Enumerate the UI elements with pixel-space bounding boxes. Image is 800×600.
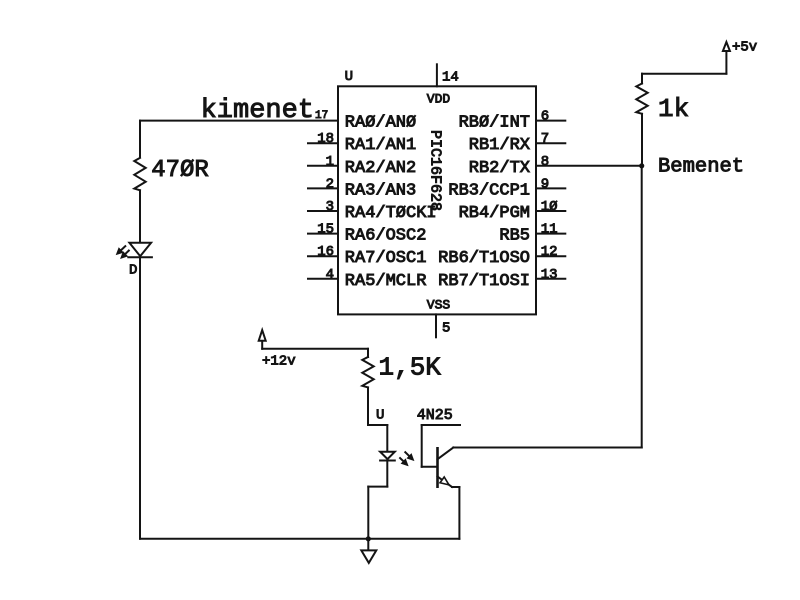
svg-text:1Ø: 1Ø bbox=[541, 199, 558, 215]
svg-text:4: 4 bbox=[326, 267, 334, 283]
svg-text:U: U bbox=[376, 408, 384, 424]
svg-text:1k: 1k bbox=[658, 94, 689, 124]
svg-text:RA4/TØCKI: RA4/TØCKI bbox=[345, 204, 437, 223]
svg-text:RA3/AN3: RA3/AN3 bbox=[345, 181, 416, 200]
svg-text:17: 17 bbox=[315, 110, 328, 122]
svg-text:RB7/T1OSI: RB7/T1OSI bbox=[438, 272, 530, 291]
svg-text:kimenet: kimenet bbox=[201, 96, 314, 126]
svg-text:16: 16 bbox=[317, 244, 334, 260]
svg-text:RA6/OSC2: RA6/OSC2 bbox=[345, 227, 427, 246]
svg-text:4N25: 4N25 bbox=[417, 407, 453, 424]
svg-text:VDD: VDD bbox=[427, 91, 451, 106]
svg-text:9: 9 bbox=[541, 176, 549, 192]
svg-text:6: 6 bbox=[541, 109, 549, 125]
svg-text:3: 3 bbox=[326, 199, 334, 215]
svg-text:5: 5 bbox=[442, 320, 450, 336]
svg-text:14: 14 bbox=[442, 69, 459, 85]
svg-text:RB5: RB5 bbox=[499, 227, 530, 246]
svg-text:18: 18 bbox=[317, 131, 334, 147]
svg-text:RB6/T1OSO: RB6/T1OSO bbox=[438, 249, 530, 268]
svg-text:RA1/AN1: RA1/AN1 bbox=[345, 136, 416, 155]
svg-text:8: 8 bbox=[541, 154, 549, 170]
svg-text:1: 1 bbox=[326, 154, 334, 170]
svg-text:+12v: +12v bbox=[262, 354, 296, 370]
svg-text:13: 13 bbox=[541, 267, 558, 283]
svg-text:RA5/MCLR: RA5/MCLR bbox=[345, 272, 427, 291]
svg-text:RA2/AN2: RA2/AN2 bbox=[345, 159, 416, 178]
svg-text:D: D bbox=[129, 262, 137, 278]
svg-text:15: 15 bbox=[317, 222, 334, 238]
svg-text:+5v: +5v bbox=[732, 40, 757, 56]
svg-text:Bemenet: Bemenet bbox=[658, 156, 744, 179]
svg-text:U: U bbox=[345, 69, 353, 85]
svg-text:1,5K: 1,5K bbox=[379, 353, 442, 383]
svg-text:12: 12 bbox=[541, 244, 558, 260]
svg-text:RBØ/INT: RBØ/INT bbox=[459, 114, 530, 133]
svg-text:RA7/OSC1: RA7/OSC1 bbox=[345, 249, 427, 268]
svg-text:RB3/CCP1: RB3/CCP1 bbox=[448, 181, 530, 200]
svg-text:47ØR: 47ØR bbox=[151, 157, 209, 184]
svg-text:11: 11 bbox=[541, 222, 558, 238]
svg-text:2: 2 bbox=[326, 176, 334, 192]
svg-text:VSS: VSS bbox=[427, 298, 451, 313]
svg-text:PIC16F628: PIC16F628 bbox=[427, 130, 444, 211]
svg-text:RAØ/ANØ: RAØ/ANØ bbox=[345, 114, 416, 133]
svg-text:RB1/RX: RB1/RX bbox=[469, 136, 530, 155]
svg-text:7: 7 bbox=[541, 131, 549, 147]
svg-text:RB4/PGM: RB4/PGM bbox=[459, 204, 530, 223]
svg-text:RB2/TX: RB2/TX bbox=[469, 159, 530, 178]
